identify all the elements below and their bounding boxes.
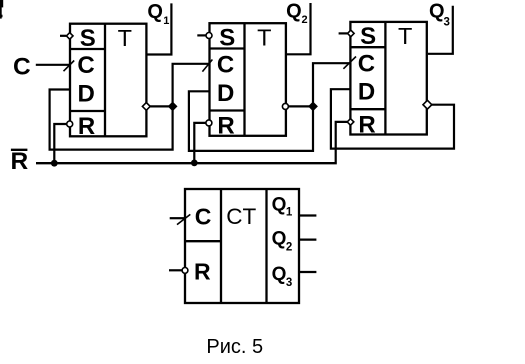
wire DD2 Q output to Q2 — [287, 3, 311, 54]
DD1 S input stub wire — [60, 35, 66, 37]
DD2 S input stub wire — [197, 34, 206, 36]
wire DD3 Q output to Q3 — [428, 6, 453, 54]
svg-text:1: 1 — [286, 207, 293, 219]
svg-text:Q: Q — [272, 229, 287, 250]
wire CT Q2 output stub — [300, 239, 316, 241]
counter CT symbol box — [185, 189, 299, 303]
wire CT R input — [169, 269, 182, 271]
svg-text:S: S — [80, 25, 96, 52]
junction node bus/DD2-R — [191, 160, 198, 167]
wire DD2 Q-bar output — [288, 105, 313, 107]
flip-flop DD2 box — [210, 23, 286, 136]
DD2 R inversion bubble — [206, 120, 212, 126]
wire DD1 R input to R-bar bus — [54, 124, 66, 163]
DD1 S inversion bubble — [66, 33, 73, 40]
svg-text:D: D — [78, 80, 95, 107]
svg-text:2: 2 — [302, 14, 308, 26]
svg-text:T: T — [257, 24, 271, 50]
node C input wire to DD1 — [36, 64, 70, 66]
wire DD2 Q-bar to DD3 C input — [313, 63, 350, 105]
DD1 Q-bar inversion diamond — [142, 103, 150, 111]
svg-text:R: R — [358, 111, 375, 138]
svg-text:Рис. 5: Рис. 5 — [206, 336, 263, 358]
flip-flop DD3 box — [350, 22, 426, 135]
DD1 C dynamic-input slash — [64, 61, 75, 72]
svg-text:C: C — [77, 52, 94, 79]
svg-text:T: T — [398, 23, 412, 49]
R-bar bus wire — [36, 162, 337, 164]
svg-text:Q: Q — [272, 195, 287, 216]
svg-text:Q: Q — [429, 1, 445, 23]
svg-text:S: S — [219, 24, 235, 51]
DD3 S inversion bubble — [348, 30, 355, 37]
svg-text:R: R — [194, 259, 211, 285]
svg-text:D: D — [358, 79, 375, 106]
svg-text:T: T — [118, 25, 132, 51]
svg-text:R: R — [217, 113, 234, 140]
junction node DD2 Q-bar — [309, 102, 317, 110]
svg-text:S: S — [360, 23, 376, 50]
flip-flop DD1 box — [70, 24, 146, 137]
wire DD1 Q output to Q1 — [146, 3, 171, 54]
wire DD1 Q-bar to DD2 C input — [173, 64, 210, 105]
CT R inversion bubble — [182, 268, 188, 274]
DD3 S input stub wire — [339, 32, 348, 34]
stray glyph fragment top-left — [0, 0, 3, 19]
DD2 Q-bar inversion bubble — [282, 103, 288, 109]
wire DD2 R input to R-bar bus — [194, 123, 205, 163]
CT C dynamic-input slash — [177, 214, 190, 224]
svg-text:R: R — [11, 148, 29, 175]
svg-text:CT: CT — [226, 204, 256, 229]
svg-text:Q: Q — [286, 0, 302, 22]
svg-text:2: 2 — [286, 242, 292, 254]
wire DD3 R input to R-bar bus — [336, 122, 348, 162]
wire CT Q3 output stub — [300, 271, 316, 273]
wire CT C input — [170, 217, 184, 219]
svg-text:Q: Q — [272, 264, 287, 285]
svg-text:C: C — [358, 50, 375, 77]
DD3 R inversion bubble — [347, 119, 354, 126]
wire DD1 D feedback from Q-bar node — [50, 90, 173, 150]
DD2 S inversion bubble — [206, 33, 212, 39]
junction node bus/DD1-R — [51, 160, 58, 167]
svg-text:3: 3 — [444, 16, 450, 28]
svg-text:D: D — [217, 80, 234, 107]
svg-text:1: 1 — [163, 15, 169, 27]
DD2 C dynamic-input slash — [202, 60, 212, 72]
DD3 Q-bar inversion diamond — [423, 100, 432, 109]
svg-text:C: C — [195, 204, 212, 230]
wire CT Q1 output stub — [300, 214, 316, 216]
svg-text:C: C — [217, 52, 234, 79]
wire DD1 Q-bar output — [150, 105, 173, 107]
junction node DD1 Q-bar — [168, 102, 176, 110]
wire DD3 D feedback loop from Q-bar — [331, 89, 454, 148]
DD1 R inversion bubble — [67, 121, 73, 127]
svg-text:R: R — [78, 113, 95, 140]
DD3 C dynamic-input slash — [343, 57, 356, 69]
svg-text:Q: Q — [147, 1, 163, 23]
wire DD2 D feedback from Q-bar node — [189, 91, 313, 151]
svg-text:C: C — [13, 53, 31, 80]
svg-text:3: 3 — [286, 277, 292, 289]
